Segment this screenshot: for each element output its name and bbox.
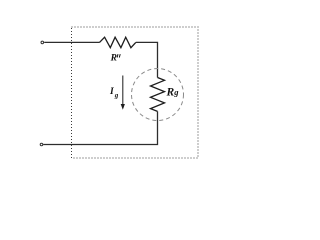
svg-text:I: I: [109, 87, 114, 97]
galvanometer enclosure (dashed circle): [132, 69, 184, 121]
wire: top terminal to R'': [44, 41, 99, 43]
svg-text:R: R: [110, 54, 117, 64]
svg-text:g: g: [114, 91, 119, 99]
resistor Rg: [151, 78, 165, 112]
svg-text:R: R: [166, 87, 175, 99]
resistor R'': [100, 37, 136, 48]
dotted enclosure box: [72, 27, 199, 158]
terminal (top-left): [41, 41, 44, 44]
terminal (bottom-left): [40, 143, 43, 146]
current arrow Ig: [122, 76, 124, 106]
svg-text:g: g: [173, 87, 179, 97]
wire: R'' to top of Rg branch: [136, 42, 158, 77]
wire: bottom of Rg to bottom terminal: [43, 111, 157, 144]
